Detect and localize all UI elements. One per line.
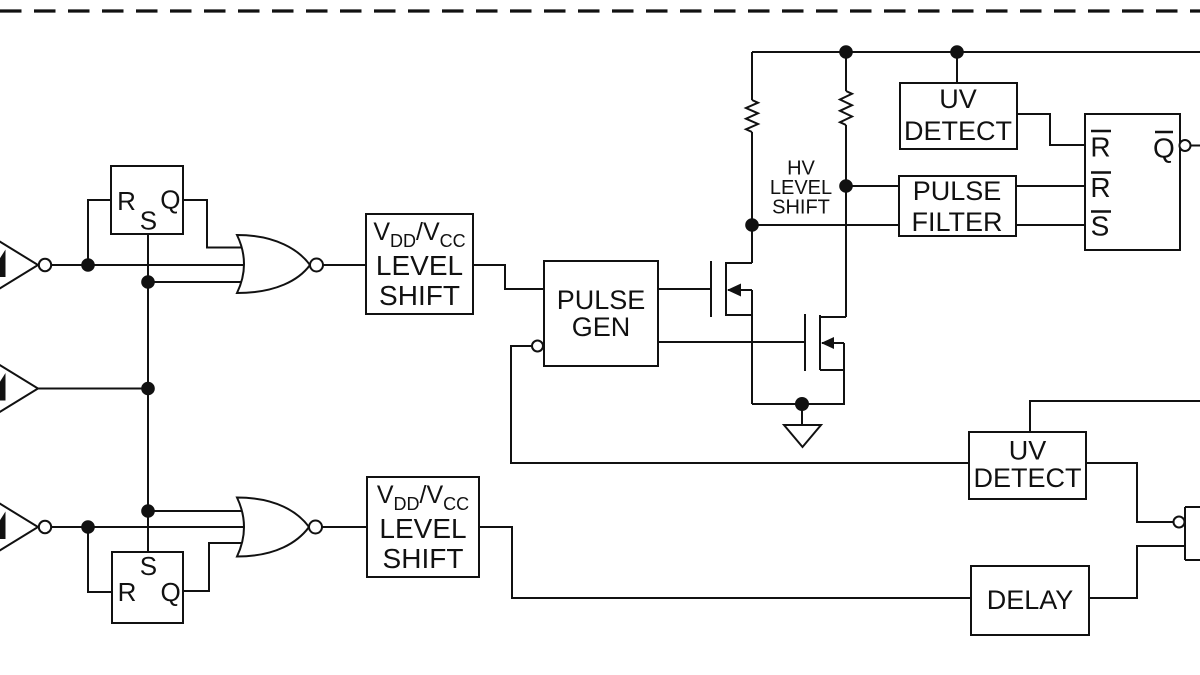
svg-text:UV: UV (1009, 436, 1047, 466)
svg-text:Q: Q (160, 184, 180, 214)
svg-text:GEN: GEN (572, 312, 631, 342)
svg-text:SHIFT: SHIFT (772, 197, 830, 219)
svg-text:S: S (140, 205, 157, 235)
svg-text:UV: UV (939, 84, 977, 114)
svg-text:DELAY: DELAY (987, 585, 1074, 615)
svg-text:Q: Q (1153, 133, 1175, 164)
svg-text:PULSE: PULSE (913, 176, 1002, 206)
svg-text:R: R (1090, 172, 1110, 203)
svg-text:LEVEL: LEVEL (376, 250, 463, 281)
svg-text:PULSE: PULSE (557, 285, 646, 315)
svg-text:S: S (140, 551, 157, 581)
svg-text:SHIFT: SHIFT (383, 543, 464, 574)
svg-text:Q: Q (160, 577, 180, 607)
svg-text:S: S (1091, 211, 1110, 242)
svg-text:FILTER: FILTER (911, 207, 1002, 237)
svg-text:R: R (1090, 132, 1110, 163)
svg-text:R: R (117, 186, 136, 216)
svg-text:DETECT: DETECT (974, 463, 1082, 493)
svg-text:DETECT: DETECT (904, 116, 1012, 146)
svg-text:R: R (118, 577, 137, 607)
svg-text:SHIFT: SHIFT (379, 280, 460, 311)
svg-text:LEVEL: LEVEL (379, 513, 466, 544)
